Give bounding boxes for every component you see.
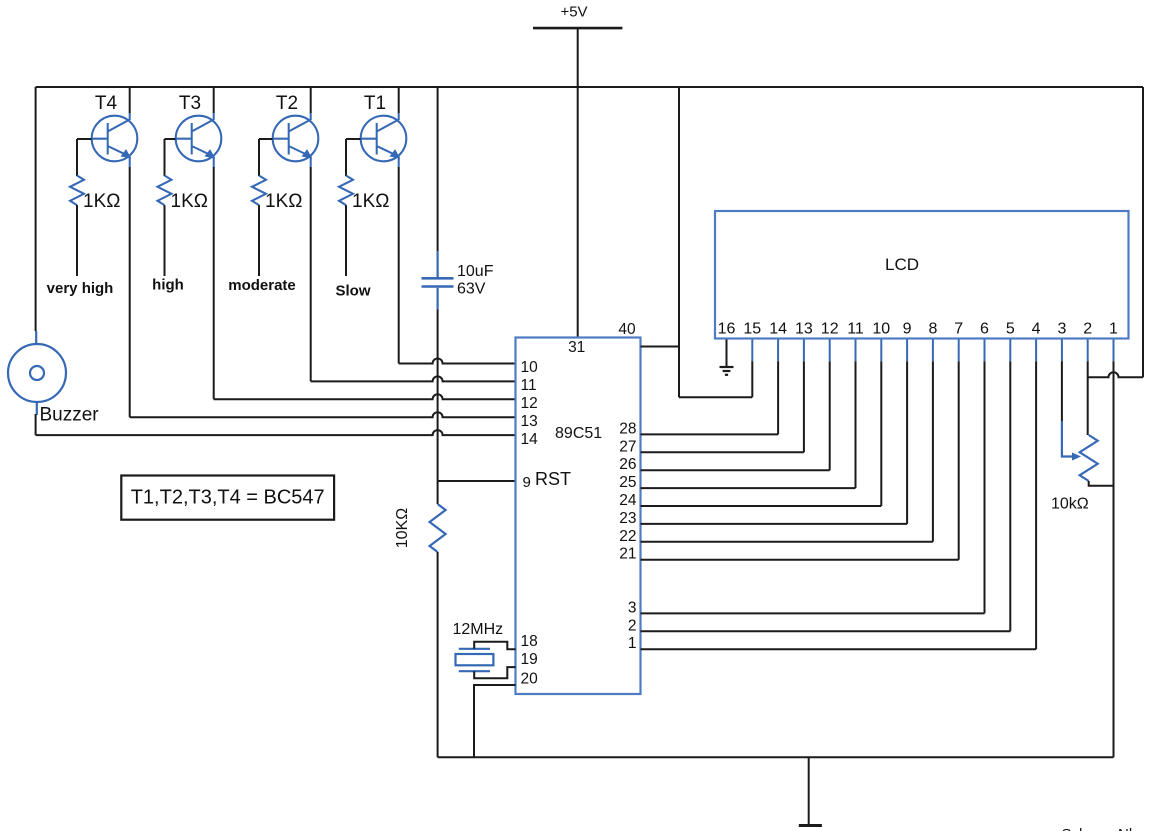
svg-text:RST: RST <box>535 469 571 489</box>
svg-text:10KΩ: 10KΩ <box>394 508 411 548</box>
IC U1 89C51 body <box>516 338 641 695</box>
svg-text:13: 13 <box>795 321 813 338</box>
resistor 1KΩ (T3 base) <box>158 176 172 206</box>
wire pot wiper (blue) <box>1062 421 1073 457</box>
wire LCD pin7 down <box>958 361 960 560</box>
svg-text:very high: very high <box>47 280 114 297</box>
svg-text:10kΩ: 10kΩ <box>1051 496 1089 513</box>
wire LCD pin1 to ground rail <box>1113 361 1115 757</box>
capacitor C1 10uF/63V <box>422 251 454 310</box>
wire RST node to resistor <box>437 481 439 504</box>
wire buzzer to pin14 <box>36 430 516 435</box>
svg-text:T3: T3 <box>179 93 201 114</box>
wire pot bottom to pin1 net <box>1089 481 1114 486</box>
resistor 1KΩ (T1 base) <box>339 176 353 206</box>
power +5V supply symbol <box>533 27 622 30</box>
wire LCD pin9 down <box>906 361 908 524</box>
wire right rail down to LCD pin2 net <box>1142 87 1144 377</box>
svg-text:3: 3 <box>628 599 637 616</box>
wire U1 pin21 to LCD pin7 <box>641 559 959 561</box>
pin stub LCD 7 <box>958 340 960 362</box>
wire T3 base lead <box>165 138 176 140</box>
svg-text:24: 24 <box>619 492 637 509</box>
wire U1 pin26 to LCD pin12 <box>641 469 830 471</box>
svg-text:12: 12 <box>521 395 538 412</box>
svg-text:63V: 63V <box>457 281 486 298</box>
wire T3 emitter to pin12 <box>214 394 516 399</box>
wire branch to LCD pin15 horizontal <box>679 396 752 398</box>
wire T1 emitter down <box>398 167 400 364</box>
svg-text:18: 18 <box>521 633 538 650</box>
wire LCD pin2 down to pot <box>1087 361 1089 435</box>
wire bottom ground rail <box>438 756 1114 758</box>
pot wiper arrowhead <box>1072 453 1081 461</box>
wire below resistor (T4) <box>76 205 78 276</box>
pin stub LCD 2 <box>1087 340 1089 362</box>
svg-text:LCD: LCD <box>885 255 919 274</box>
svg-text:Sch: Sch <box>1062 826 1088 831</box>
wire pin40 to +5V branch <box>641 346 680 348</box>
wire LCD pin16 to ground <box>726 340 728 367</box>
pin stub LCD 4 <box>1035 340 1037 362</box>
svg-text:15: 15 <box>743 321 761 338</box>
wire LCD pin11 down <box>855 361 857 488</box>
pin stub LCD 11 <box>855 340 857 362</box>
svg-text:Slow: Slow <box>335 283 370 300</box>
wire U1 pin23 to LCD pin9 <box>641 523 908 525</box>
wire crystal bottom to pin19 <box>474 667 515 678</box>
wire T4 base lead <box>77 138 92 140</box>
svg-text:12: 12 <box>821 321 839 338</box>
resistor 1KΩ (T2 base) <box>252 176 266 206</box>
wire T3 base down to resistor <box>164 139 166 176</box>
wire LCD pin12 down <box>829 361 831 470</box>
pin stub LCD 8 <box>932 340 934 362</box>
pin stub LCD 10 <box>880 340 882 362</box>
wire U1 pin2 to LCD pin5 <box>641 630 1011 632</box>
wire top supply rail <box>36 86 1143 88</box>
wire capacitor to RST node <box>437 310 439 482</box>
wire U1 pin27 to LCD pin13 <box>641 451 804 453</box>
svg-text:28: 28 <box>619 420 636 437</box>
pin stub LCD 1 <box>1113 340 1115 362</box>
wire T4 emitter to pin13 <box>130 412 516 417</box>
svg-text:16: 16 <box>718 321 736 338</box>
wire T1 base down to resistor <box>345 139 347 176</box>
svg-text:4: 4 <box>1032 321 1041 338</box>
wire pin20 to ground rail <box>474 685 516 757</box>
svg-text:moderate: moderate <box>228 277 296 294</box>
LCD module body <box>715 211 1129 339</box>
wire crystal top to pin18 <box>474 642 515 650</box>
svg-text:21: 21 <box>619 546 636 563</box>
wire pin2 net to right rail (hop over pin1) <box>1088 372 1143 377</box>
svg-text:14: 14 <box>521 431 539 448</box>
pin stub LCD 9 <box>906 340 908 362</box>
wire T2 base down to resistor <box>258 139 260 176</box>
svg-text:1KΩ: 1KΩ <box>352 191 389 212</box>
pin stub LCD 12 <box>829 340 831 362</box>
wire left rail to buzzer <box>35 87 37 331</box>
svg-text:1KΩ: 1KΩ <box>83 191 120 212</box>
wire U1 pin24 to LCD pin10 <box>641 505 882 507</box>
wire T4 emitter down <box>129 167 131 417</box>
svg-text:1KΩ: 1KΩ <box>171 191 208 212</box>
svg-text:11: 11 <box>847 321 864 338</box>
svg-text:T1: T1 <box>364 93 386 114</box>
wire below resistor (T1) <box>345 205 347 276</box>
wire LCD pin13 down <box>803 361 805 452</box>
wire U1 pin22 to LCD pin8 <box>641 541 933 543</box>
wire +5V rail to capacitor <box>437 87 439 251</box>
svg-text:7: 7 <box>954 321 963 338</box>
wire buzzer to pin14 row <box>35 414 37 435</box>
svg-text:31: 31 <box>568 339 585 356</box>
wire LCD pin3 down <box>1061 361 1063 421</box>
transistor T2 (BC547 NPN) <box>273 87 319 167</box>
wire LCD pin8 down <box>932 361 934 542</box>
svg-text:Nb: Nb <box>1118 826 1137 831</box>
wire RST to pin9 <box>438 480 516 482</box>
transistor T1 (BC547 NPN) <box>361 87 407 167</box>
svg-text:10uF: 10uF <box>457 263 494 280</box>
svg-text:Buzzer: Buzzer <box>40 405 100 426</box>
svg-text:2: 2 <box>628 617 637 634</box>
svg-text:12MHz: 12MHz <box>453 621 504 638</box>
wire below resistor (T2) <box>258 205 260 276</box>
wire +5V to pin31 (vertical) <box>577 28 579 337</box>
resistor 10KΩ (reset pulldown) <box>430 504 446 552</box>
svg-text:T4: T4 <box>95 93 118 114</box>
svg-text:10: 10 <box>872 321 890 338</box>
svg-text:5: 5 <box>1006 321 1015 338</box>
wire T3 emitter down <box>213 167 215 399</box>
svg-text:9: 9 <box>903 321 912 338</box>
svg-text:high: high <box>152 277 184 294</box>
svg-text:9: 9 <box>523 474 531 491</box>
pin stub LCD 13 <box>803 340 805 362</box>
svg-text:11: 11 <box>521 377 537 394</box>
wire T1 emitter to pin10 <box>399 359 516 364</box>
pin stub LCD 14 <box>777 340 779 362</box>
svg-text:27: 27 <box>619 438 636 455</box>
wire T2 base lead <box>259 138 273 140</box>
wire below resistor (T3) <box>164 205 166 276</box>
svg-text:19: 19 <box>521 651 538 668</box>
pin stub LCD 15 <box>751 340 753 362</box>
svg-text:40: 40 <box>618 321 636 338</box>
wire LCD pin15 down <box>751 361 753 397</box>
svg-text:6: 6 <box>980 321 989 338</box>
wire T1 base lead <box>346 138 361 140</box>
note box T1..T4 = BC547 <box>121 476 334 520</box>
svg-text:2: 2 <box>1083 321 1092 338</box>
wire U1 pin28 to LCD pin14 <box>641 433 779 435</box>
wire resistor to ground rail <box>437 552 439 757</box>
wire U1 pin3 to LCD pin6 <box>641 612 985 614</box>
svg-text:+5V: +5V <box>560 4 587 21</box>
svg-text:89C51: 89C51 <box>555 425 602 442</box>
ground symbol (bottom) <box>799 757 822 825</box>
ground symbol (LCD pin16) <box>720 367 734 375</box>
pin stub LCD 5 <box>1009 340 1011 362</box>
crystal X1 12MHz <box>456 649 494 671</box>
svg-text:14: 14 <box>769 321 787 338</box>
svg-text:20: 20 <box>521 671 539 688</box>
svg-text:10: 10 <box>521 359 539 376</box>
wire T2 emitter down <box>310 167 312 381</box>
wire LCD pin4 down <box>1035 361 1037 649</box>
svg-text:25: 25 <box>619 474 636 491</box>
wire +5V branch vertical (x=679) <box>678 87 680 397</box>
buzzer BZ1 <box>8 331 66 415</box>
wire T4 base down to resistor <box>76 139 78 176</box>
svg-text:26: 26 <box>619 456 636 473</box>
wire LCD pin10 down <box>880 361 882 506</box>
svg-text:T2: T2 <box>276 93 298 114</box>
svg-text:T1,T2,T3,T4 = BC547: T1,T2,T3,T4 = BC547 <box>131 487 325 509</box>
svg-text:8: 8 <box>928 321 937 338</box>
pin stub LCD 3 <box>1061 340 1063 362</box>
wire T2 emitter to pin11 <box>311 376 516 381</box>
potentiometer RV1 10kΩ <box>1080 435 1098 481</box>
resistor 1KΩ (T4 base) <box>70 176 84 206</box>
wire U1 pin25 to LCD pin11 <box>641 487 856 489</box>
wire LCD pin5 down <box>1009 361 1011 631</box>
transistor T4 (BC547 NPN) <box>92 87 138 167</box>
wire LCD pin6 down <box>984 361 986 613</box>
svg-text:13: 13 <box>521 413 538 430</box>
svg-text:1: 1 <box>1109 321 1118 338</box>
transistor T3 (BC547 NPN) <box>176 87 222 167</box>
svg-text:1KΩ: 1KΩ <box>265 191 302 212</box>
svg-text:23: 23 <box>619 510 636 527</box>
pin stub LCD 6 <box>984 340 986 362</box>
svg-text:22: 22 <box>619 528 636 545</box>
svg-text:3: 3 <box>1057 321 1066 338</box>
svg-text:1: 1 <box>628 635 637 652</box>
wire LCD pin14 down <box>777 361 779 434</box>
wire U1 pin1 to LCD pin4 <box>641 648 1037 650</box>
